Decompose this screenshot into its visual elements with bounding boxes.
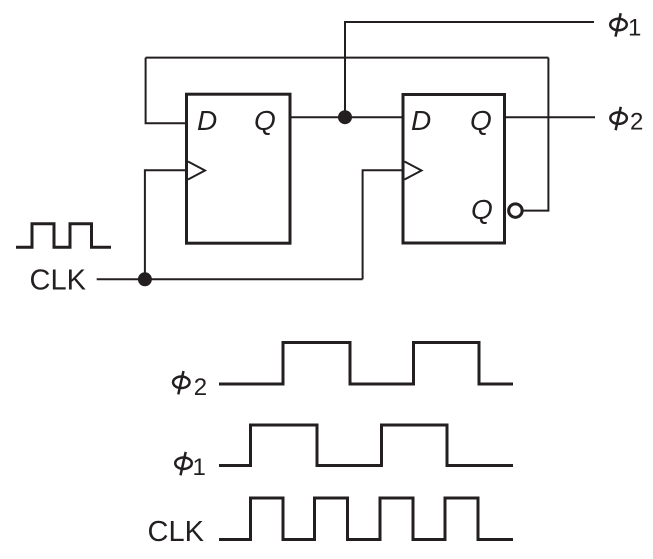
wire feedback left riser to D1 (146, 58, 185, 124)
waveform trace CLK (219, 498, 513, 540)
svg-text:2: 2 (630, 108, 643, 135)
wire phi1 riser and horizontal (345, 22, 594, 117)
wire Q1 to D2 (290, 116, 403, 118)
svg-text:CLK: CLK (148, 516, 205, 548)
waveform label phi1 (175, 452, 192, 475)
waveform trace phi2 (219, 343, 513, 385)
svg-text:D: D (411, 105, 431, 136)
svg-text:D: D (197, 105, 217, 136)
wire feedback top horizontal (146, 57, 549, 59)
svg-text:Q: Q (470, 105, 492, 136)
flip-flop U2 clock triangle (405, 162, 422, 180)
wire phi2 from Q2 (505, 116, 596, 118)
waveform label phi2 (173, 371, 190, 394)
net label phi2 right (610, 107, 627, 130)
svg-text:2: 2 (194, 374, 207, 401)
node junction dot at Q1 (338, 110, 352, 124)
flip-flop U1 clock triangle (188, 162, 205, 180)
wire CLK riser to U2 clock (363, 170, 402, 279)
flip-flop U2 box (403, 95, 505, 244)
svg-text:Q: Q (254, 105, 276, 136)
svg-text:CLK: CLK (30, 264, 87, 296)
inversion bubble on U2 Qbar output (509, 204, 523, 218)
waveform trace phi1 (219, 425, 513, 466)
clock waveform icon at input (16, 224, 111, 248)
node junction dot on CLK (138, 272, 152, 286)
svg-text:1: 1 (628, 15, 641, 42)
wire CLK horizontal (97, 278, 363, 280)
flip-flop U1 box (187, 94, 291, 243)
wire feedback right riser from Qbar (524, 58, 549, 211)
wire CLK riser to U1 clock (145, 170, 185, 279)
net label phi1 top right (610, 13, 627, 36)
svg-text:1: 1 (193, 454, 206, 481)
svg-text:Q: Q (471, 194, 493, 225)
